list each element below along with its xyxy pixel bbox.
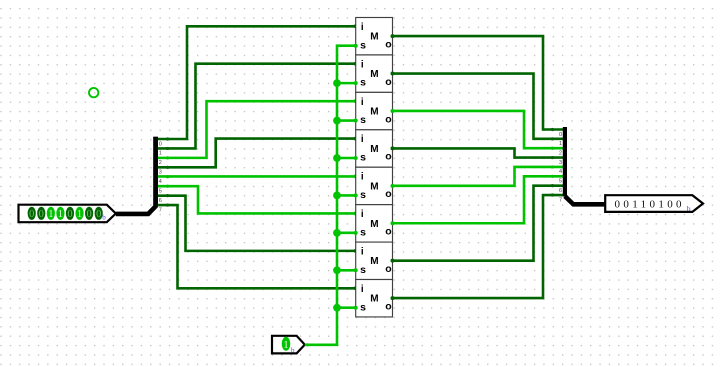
bus wire from input IN1 to splitter SP1: [116, 137, 156, 214]
wire splitter pin4 to U5.i: [158, 174, 358, 178]
svg-text:i: i: [361, 284, 364, 295]
svg-text:5: 5: [559, 179, 562, 185]
svg-text:s: s: [360, 77, 366, 89]
svg-text:o: o: [385, 76, 391, 88]
svg-text:i: i: [361, 209, 364, 220]
svg-text:s: s: [360, 226, 366, 238]
svg-text:o: o: [385, 263, 391, 275]
M-block U5: [356, 167, 393, 204]
svg-text:1: 1: [77, 209, 82, 220]
M-block U1: [356, 18, 393, 55]
wire splitter pin1 to U2.i: [158, 62, 358, 150]
svg-text:2: 2: [559, 151, 562, 157]
svg-text:3: 3: [559, 160, 562, 166]
svg-text:i: i: [361, 172, 364, 183]
merger SP2 (8x1): [563, 127, 567, 197]
svg-text:6: 6: [159, 198, 162, 204]
svg-text:1: 1: [48, 209, 53, 220]
wire U6.o to merger pin5: [391, 175, 564, 226]
svg-text:b: b: [687, 204, 691, 213]
LED D1 (off, green ring): [89, 88, 98, 97]
wire select stub to U5.s with junction: [333, 192, 358, 200]
svg-text:2: 2: [159, 160, 162, 166]
wire select stub to U2.s with junction: [333, 79, 358, 87]
svg-text:1: 1: [559, 141, 562, 147]
svg-text:1: 1: [159, 151, 162, 157]
svg-text:7: 7: [159, 207, 162, 213]
svg-text:o: o: [385, 113, 391, 125]
svg-text:i: i: [361, 246, 364, 257]
svg-text:s: s: [360, 114, 366, 126]
svg-text:0: 0: [559, 132, 562, 138]
M-block U2: [356, 55, 393, 92]
svg-text:0: 0: [29, 209, 34, 220]
wire U7.o to merger pin6: [391, 184, 564, 263]
wire select stub to U8.s with junction: [333, 304, 358, 312]
M-block U6: [356, 205, 393, 242]
wire select stub to U4.s with junction: [333, 154, 358, 162]
svg-text:o: o: [385, 226, 391, 238]
value label 00110100b on input IN1: [28, 207, 107, 222]
wire splitter pin6 to U7.i: [158, 194, 358, 253]
svg-text:i: i: [361, 97, 364, 108]
svg-text:i: i: [361, 59, 364, 70]
svg-text:M: M: [370, 32, 378, 43]
wire splitter pin2 to U3.i: [158, 99, 358, 159]
svg-text:0: 0: [159, 141, 162, 147]
svg-text:M: M: [370, 181, 378, 192]
svg-text:i: i: [361, 134, 364, 145]
svg-text:o: o: [385, 151, 391, 163]
svg-text:s: s: [360, 264, 366, 276]
M-block U4: [356, 130, 393, 167]
wire splitter pin7 to U8.i: [158, 203, 358, 290]
wire U2.o to merger pin1: [391, 72, 564, 141]
svg-text:5: 5: [159, 189, 162, 195]
M-block U8: [356, 280, 393, 317]
svg-text:o: o: [385, 188, 391, 200]
svg-text:1: 1: [283, 340, 288, 351]
svg-text:M: M: [370, 106, 378, 117]
wire splitter pin5 to U6.i: [158, 185, 358, 216]
wire U4.o to merger pin3: [391, 146, 564, 159]
svg-text:M: M: [370, 144, 378, 155]
input SEL (select, value 1b): [272, 336, 305, 355]
svg-text:M: M: [370, 294, 378, 305]
M-block U3: [356, 92, 393, 129]
svg-text:s: s: [360, 152, 366, 164]
svg-text:4: 4: [559, 169, 562, 175]
wire U5.o to merger pin4: [391, 165, 564, 187]
value label 00110100b on output OUT1: [615, 199, 691, 213]
M-block U7: [356, 242, 393, 279]
wire select stub to U6.s with junction: [333, 229, 358, 237]
wire select stub to U7.s with junction: [333, 266, 358, 274]
svg-text:o: o: [385, 300, 391, 312]
output OUT1 (8-bit, value 00110100b): [605, 195, 703, 212]
input IN1 (8-bit, value 00110100b): [19, 205, 116, 223]
svg-text:s: s: [360, 39, 366, 51]
svg-text:M: M: [370, 69, 378, 80]
svg-text:1: 1: [58, 209, 63, 220]
svg-text:s: s: [360, 301, 366, 313]
wire select net from SEL up to U1.s: [305, 44, 358, 347]
svg-text:0: 0: [39, 209, 44, 220]
svg-text:00110100: 00110100: [615, 199, 685, 211]
wire splitter pin0 to U1.i: [158, 24, 358, 140]
svg-text:i: i: [361, 22, 364, 33]
svg-text:M: M: [370, 256, 378, 267]
svg-text:M: M: [370, 219, 378, 230]
svg-text:4: 4: [159, 179, 162, 185]
svg-text:6: 6: [559, 188, 562, 194]
wire U3.o to merger pin2: [391, 109, 564, 150]
wire U1.o to merger pin0: [391, 34, 564, 131]
svg-text:b: b: [291, 347, 295, 355]
svg-text:7: 7: [559, 197, 562, 203]
svg-text:3: 3: [159, 170, 162, 176]
svg-text:s: s: [360, 189, 366, 201]
svg-text:0: 0: [96, 209, 101, 220]
svg-text:0: 0: [67, 209, 72, 220]
svg-text:o: o: [385, 38, 391, 50]
wire splitter pin3 to U4.i: [158, 137, 358, 169]
bus wire from merger SP2 to output OUT1: [565, 196, 605, 204]
wire U8.o to merger pin7: [391, 193, 564, 300]
splitter SP1 (1x8): [153, 137, 158, 207]
svg-text:0: 0: [86, 209, 91, 220]
wire select stub to U3.s with junction: [333, 117, 358, 125]
svg-text:b: b: [102, 214, 106, 222]
